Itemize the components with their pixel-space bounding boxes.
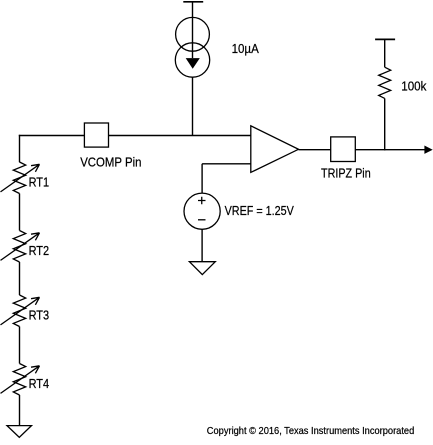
wire RT4 to ground [19, 395, 21, 426]
svg-text:RT4: RT4 [29, 376, 50, 391]
VREF minus sign [198, 219, 206, 221]
svg-text:RT3: RT3 [29, 308, 50, 323]
wire RT2-RT3 [19, 262, 21, 295]
RT1 arrow [1, 164, 40, 192]
svg-text:TRIPZ Pin: TRIPZ Pin [321, 165, 371, 180]
RT4 arrow [1, 366, 40, 394]
ground (VREF) [189, 262, 215, 275]
op-amp comparator [251, 126, 299, 173]
wire: rail to 100k resistor [384, 39, 386, 67]
thermistor RT1 zigzag [13, 162, 25, 194]
wire: comparator output [299, 149, 426, 151]
output arrowhead [424, 146, 432, 154]
current source I1 (10uA) upper circle [176, 17, 210, 51]
TRIPZ pin box [331, 137, 356, 162]
thermistor RT2 zigzag [13, 231, 25, 263]
RT3 arrow [1, 297, 40, 325]
VCOMP pin box [84, 123, 108, 147]
wire: VREF top lead [201, 164, 203, 193]
supply rail bar (top of 100k) [375, 38, 395, 40]
svg-text:100k: 100k [401, 79, 427, 94]
thermistor RT4 zigzag [13, 364, 25, 396]
wire: left vertical down to RT1 [19, 135, 21, 162]
svg-text:Copyright © 2016, Texas Instru: Copyright © 2016, Texas Instruments Inco… [207, 426, 414, 437]
voltage source VREF circle [184, 193, 220, 229]
RT2 arrow [1, 233, 40, 261]
thermistor RT3 zigzag [13, 295, 25, 327]
wire: 100k to output net [384, 98, 386, 150]
svg-text:RT2: RT2 [29, 243, 50, 258]
svg-text:10µA: 10µA [232, 41, 260, 56]
wire: inverting input from VREF [202, 163, 251, 165]
VREF plus sign [198, 197, 206, 205]
wire RT3-RT4 [19, 327, 21, 364]
wire: VREF to ground [201, 229, 203, 262]
svg-text:VCOMP Pin: VCOMP Pin [80, 155, 141, 170]
wire: current source to VCOMP node [192, 77, 194, 135]
supply rail bar (top of 10uA source) [183, 1, 203, 3]
ground (left chain) [7, 426, 32, 438]
wire: rail to current source arrow [192, 2, 194, 58]
svg-text:VREF = 1.25V: VREF = 1.25V [225, 203, 294, 218]
resistor 100k zigzag [379, 67, 391, 98]
wire RT1-RT2 [19, 194, 21, 231]
current source arrow (downward) [186, 58, 200, 69]
current source I1 lower circle [175, 43, 209, 77]
wire: main horizontal VCOMP net [19, 135, 251, 137]
svg-text:RT1: RT1 [29, 175, 50, 190]
